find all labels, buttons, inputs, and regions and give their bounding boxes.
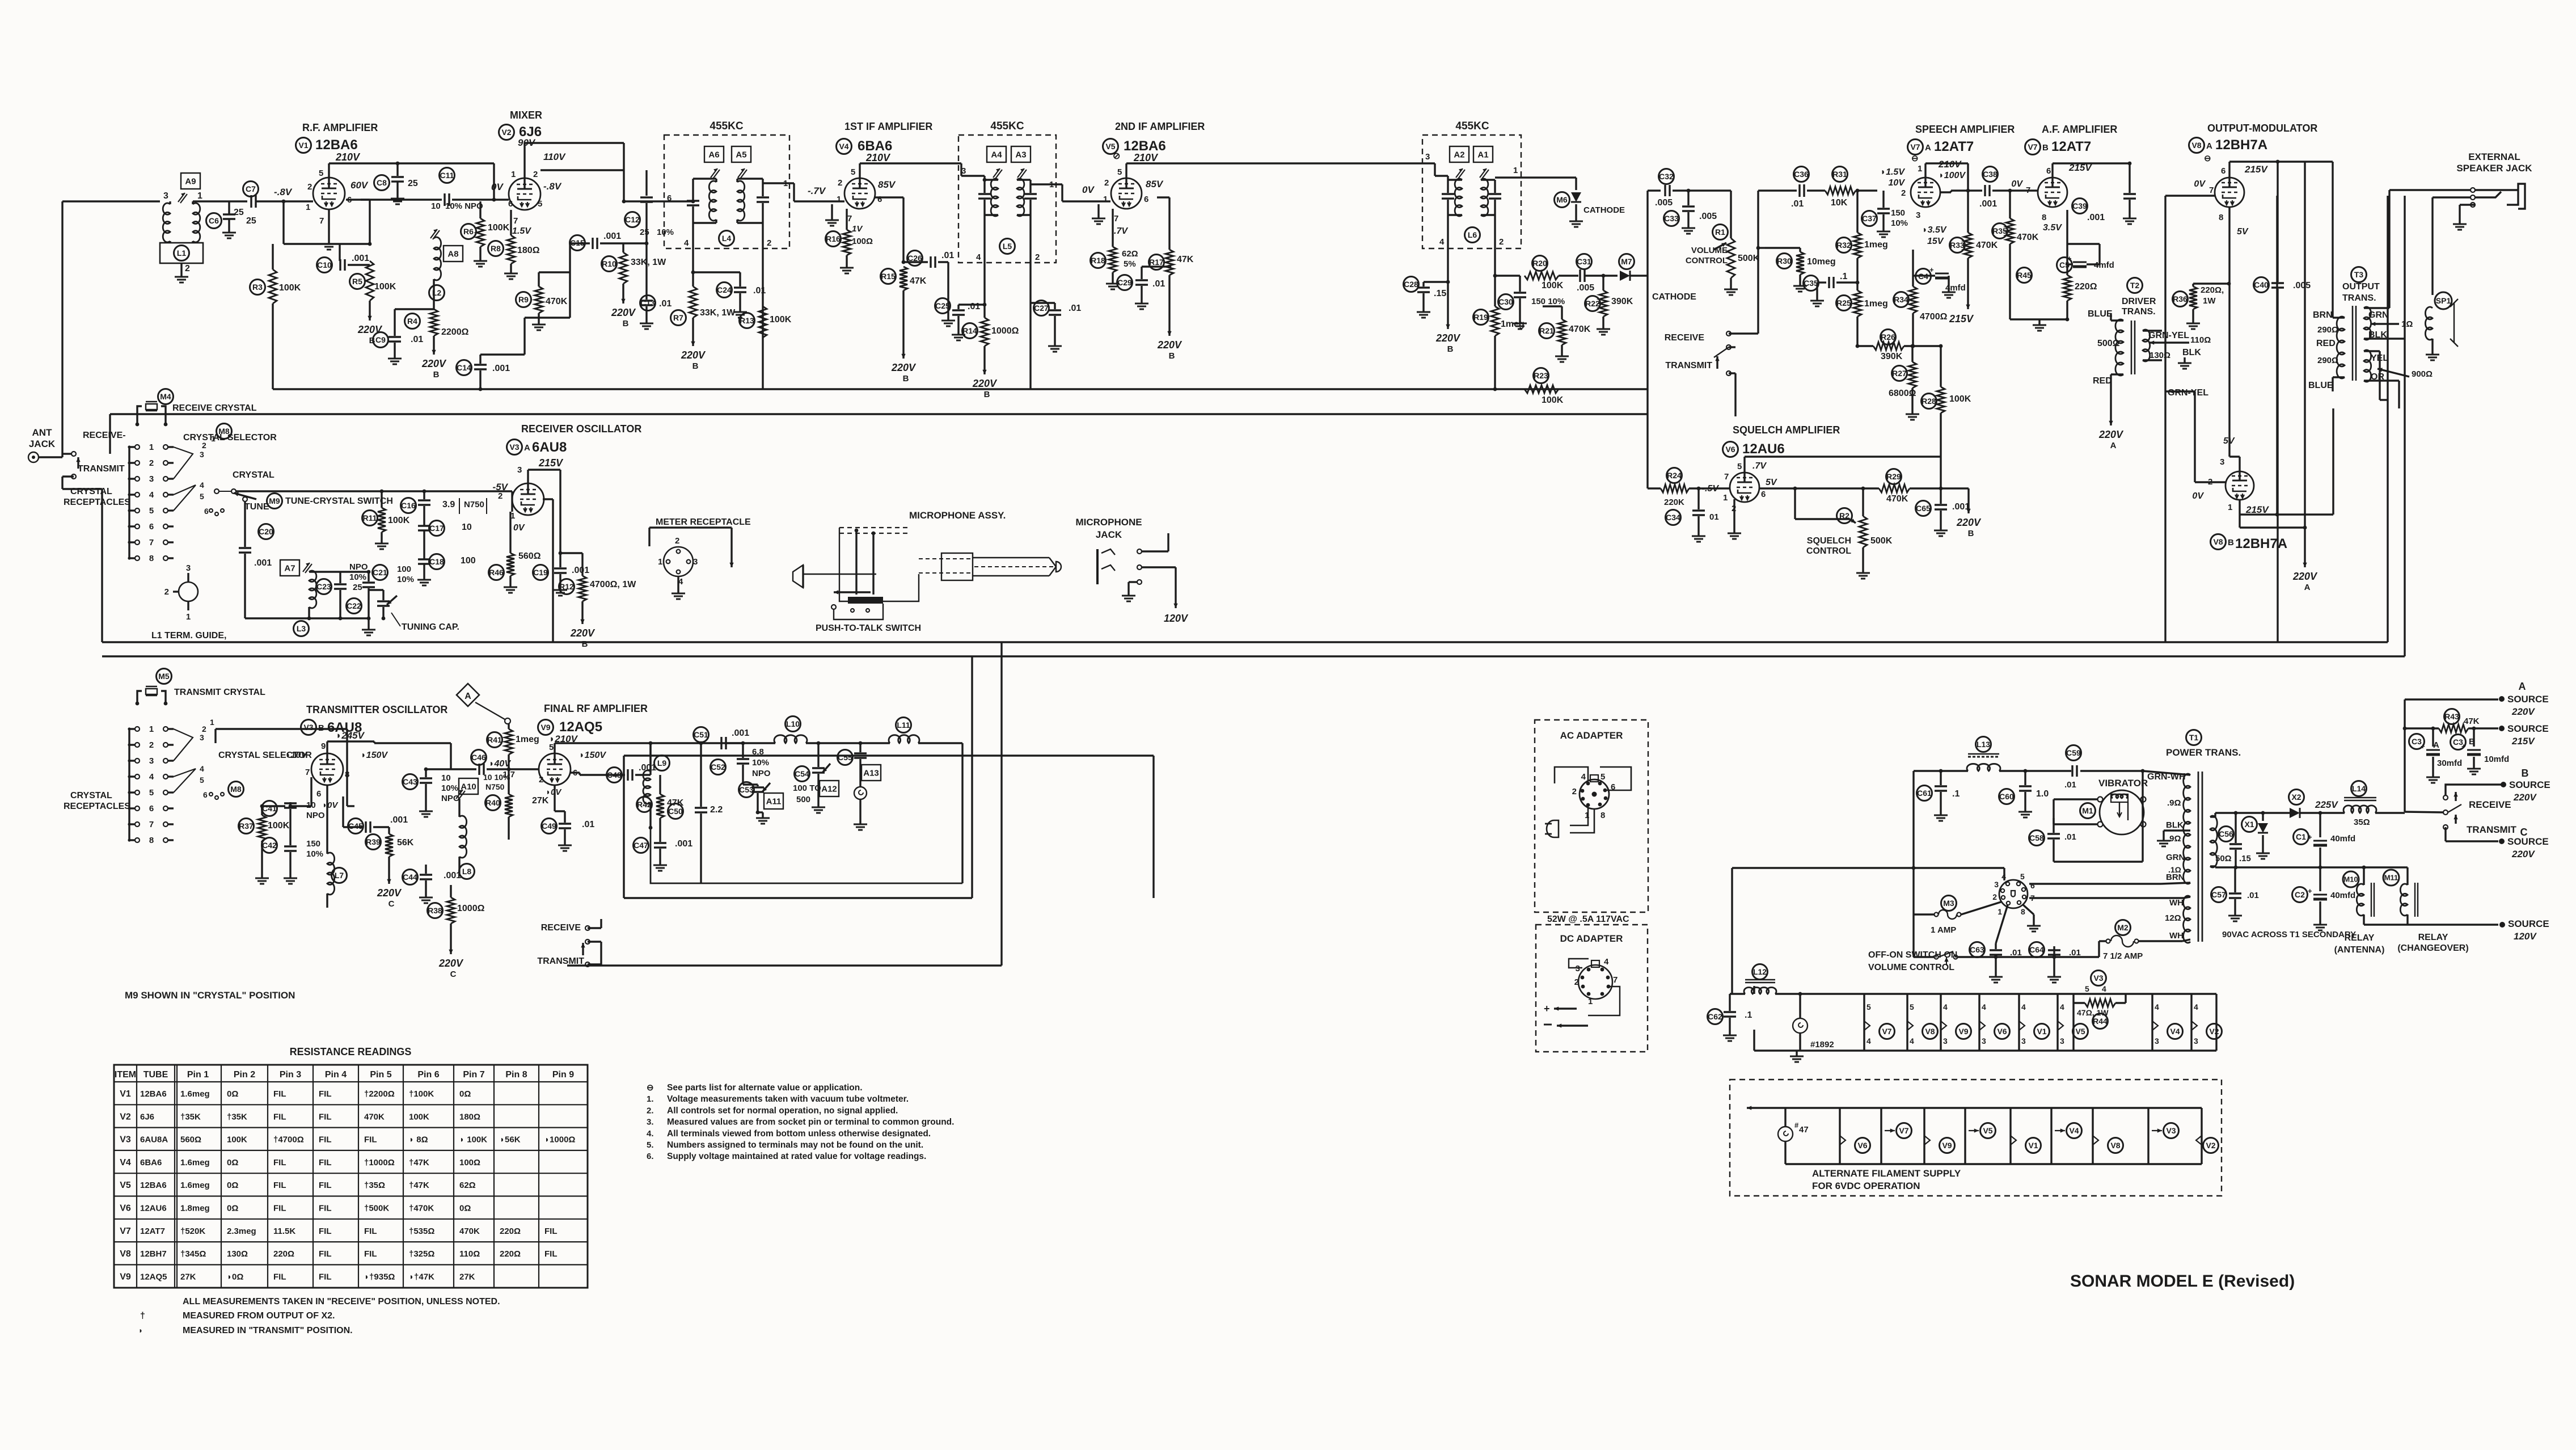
pin 6 V2 xyxy=(508,199,513,209)
receive-transmit source switch xyxy=(2443,785,2511,829)
svg-text:220Ω,: 220Ω, xyxy=(2201,285,2224,295)
svg-text:V3: V3 xyxy=(509,442,519,452)
label BLUE T3 xyxy=(2308,381,2333,390)
svg-text:.005: .005 xyxy=(1699,212,1717,221)
svg-text:A: A xyxy=(2519,681,2526,692)
svg-text:150 10%: 150 10% xyxy=(1531,297,1565,306)
svg-text:C44: C44 xyxy=(403,872,417,882)
label OFF-ON SWITCH xyxy=(1868,950,1957,972)
inductor L10 xyxy=(774,716,807,744)
label CRYSTAL SELECTOR lower xyxy=(218,751,312,760)
svg-text:130Ω: 130Ω xyxy=(227,1249,248,1259)
svg-text:12AQ5: 12AQ5 xyxy=(140,1272,167,1282)
svg-text:100: 100 xyxy=(461,556,476,566)
ground under C33 xyxy=(1682,222,1695,234)
svg-text:◗3.5V: ◗3.5V xyxy=(1922,225,1947,235)
voltage 210V V9 xyxy=(549,734,578,744)
svg-text:†470K: †470K xyxy=(409,1204,434,1213)
vibrator M1 designator xyxy=(2080,803,2096,819)
crystal selector M8 lower xyxy=(229,782,244,797)
svg-text:TUNE-CRYSTAL SWITCH: TUNE-CRYSTAL SWITCH xyxy=(285,496,393,506)
svg-text:SPEAKER JACK: SPEAKER JACK xyxy=(2456,163,2532,174)
wire main bus 730 xyxy=(110,414,1648,454)
label EXTERNAL SPEAKER JACK xyxy=(2456,151,2532,174)
svg-text:RECEPTACLES: RECEPTACLES xyxy=(64,802,130,811)
ground under C25 xyxy=(952,329,965,340)
ground under R30 xyxy=(1793,280,1807,292)
svg-text:FIL: FIL xyxy=(273,1112,286,1122)
inductor L3 label xyxy=(294,621,309,637)
pin 1 IF3 xyxy=(1513,166,1518,175)
IF1 secondary coil xyxy=(737,179,745,223)
svg-text:10%: 10% xyxy=(1891,218,1908,228)
svg-text:CATHODE: CATHODE xyxy=(1652,292,1696,302)
svg-text:A: A xyxy=(1925,143,1931,153)
svg-text:7: 7 xyxy=(1114,214,1118,224)
resistor R24 xyxy=(1661,468,1730,508)
wire T3 BLK riser xyxy=(2404,196,2405,339)
alt filament V5 xyxy=(1965,1108,1996,1164)
label RED T2 xyxy=(2093,376,2112,386)
svg-text:C30: C30 xyxy=(1498,297,1513,306)
capacitor C11 xyxy=(361,168,494,212)
ground under R18 xyxy=(1106,278,1120,289)
tube V8B 12BH7A xyxy=(2226,471,2254,500)
svg-text:100K: 100K xyxy=(770,315,792,324)
svg-text:3: 3 xyxy=(186,563,191,573)
capacitor C2 xyxy=(2292,867,2356,919)
svg-text:V7: V7 xyxy=(1910,142,1920,151)
voltage .7V V5 xyxy=(1114,226,1128,236)
svg-text:V1: V1 xyxy=(120,1089,131,1099)
voltage 0V V3A xyxy=(513,523,525,533)
svg-text:V8: V8 xyxy=(2110,1141,2120,1150)
svg-text:2: 2 xyxy=(838,178,842,188)
capacitor C33 xyxy=(1664,189,1717,226)
speaker SP1 xyxy=(2425,292,2458,349)
svg-text:TRANS.: TRANS. xyxy=(2342,293,2376,303)
svg-text:8: 8 xyxy=(149,836,154,845)
svg-text:VOLUME CONTROL: VOLUME CONTROL xyxy=(1868,963,1954,972)
svg-text:RED: RED xyxy=(2093,376,2112,386)
svg-text:10%: 10% xyxy=(349,572,366,582)
svg-text:1.6meg: 1.6meg xyxy=(180,1181,210,1190)
fuse M2 xyxy=(2103,920,2143,962)
svg-text:RECEIVE CRYSTAL: RECEIVE CRYSTAL xyxy=(172,403,257,413)
voltage 110V xyxy=(543,151,566,162)
svg-text:V1: V1 xyxy=(298,141,308,150)
capacitor C39 xyxy=(2072,163,2136,222)
svg-text:CONTROL: CONTROL xyxy=(1806,546,1851,556)
wire V4 out xyxy=(875,197,903,244)
svg-text:A5: A5 xyxy=(736,150,746,159)
svg-text:CRYSTAL: CRYSTAL xyxy=(70,487,112,496)
svg-text:L14: L14 xyxy=(2352,784,2366,793)
svg-text:Pin 9: Pin 9 xyxy=(552,1070,574,1080)
svg-text:V2: V2 xyxy=(501,128,511,137)
svg-text:.1: .1 xyxy=(1745,1010,1752,1020)
svg-text:0Ω: 0Ω xyxy=(227,1089,238,1099)
svg-text:1.0: 1.0 xyxy=(2036,789,2049,799)
capacitor C20 xyxy=(239,524,274,575)
svg-text:11.5K: 11.5K xyxy=(273,1226,295,1236)
junction C14 bus xyxy=(479,387,483,391)
svg-text:5: 5 xyxy=(319,168,323,178)
svg-text:⊖: ⊖ xyxy=(2204,154,2211,163)
ground T2 BLK xyxy=(2178,357,2191,369)
svg-text:2: 2 xyxy=(1035,252,1040,262)
svg-text:◗10V: ◗10V xyxy=(285,751,307,760)
svg-text:Pin 7: Pin 7 xyxy=(463,1070,484,1080)
capacitor C29 xyxy=(1117,267,1165,298)
ground under C29 xyxy=(1135,298,1148,309)
label 1ohm T1 xyxy=(2168,865,2181,874)
svg-text:220V: 220V xyxy=(421,358,447,369)
wire bus 1679 xyxy=(567,642,1002,966)
label RESISTANCE READINGS xyxy=(290,1046,412,1057)
inductor L12 xyxy=(1730,964,2216,994)
svg-text:†520K: †520K xyxy=(180,1226,205,1236)
svg-text:RED: RED xyxy=(2316,339,2336,348)
wire V3B plate up xyxy=(326,741,328,753)
resistor R39 xyxy=(366,827,414,865)
resistor R25 xyxy=(1836,271,1888,346)
svg-text:R37: R37 xyxy=(239,821,254,831)
tube V9 12AQ5 xyxy=(539,753,571,785)
capacitor C64 xyxy=(2029,942,2081,972)
svg-text:C40: C40 xyxy=(2254,280,2269,289)
receive-transmit antenna switch xyxy=(62,452,102,489)
ground under C53 xyxy=(756,812,770,824)
tube V3A designator xyxy=(507,440,567,456)
svg-text:C27: C27 xyxy=(1034,304,1049,313)
svg-text:R27: R27 xyxy=(1892,369,1907,378)
svg-text:MIXER: MIXER xyxy=(510,109,542,121)
transformer T3 designator xyxy=(2351,267,2367,283)
svg-text:WH: WH xyxy=(2169,931,2184,941)
svg-text:RECEIVE-: RECEIVE- xyxy=(83,431,126,440)
svg-text:R45: R45 xyxy=(2017,271,2032,280)
svg-text:2: 2 xyxy=(1992,892,1997,901)
capacitor C37 xyxy=(1862,191,1908,228)
capacitor C14 xyxy=(457,272,571,389)
capacitor C5 xyxy=(2057,244,2114,273)
svg-text:100Ω: 100Ω xyxy=(459,1158,480,1167)
svg-text:0Ω: 0Ω xyxy=(459,1204,471,1213)
svg-text:BLK: BLK xyxy=(2166,820,2184,830)
svg-text:R11: R11 xyxy=(363,513,377,522)
svg-text:8: 8 xyxy=(1601,811,1605,820)
label 900ohm T3 xyxy=(2377,368,2433,379)
arrow 220V C below R39 xyxy=(377,865,402,909)
ground under C47 xyxy=(653,859,667,871)
wire IF2 pin2 down xyxy=(1029,215,1031,303)
svg-text:5: 5 xyxy=(2085,984,2089,993)
ground under SP1 xyxy=(2426,349,2439,360)
svg-text:M11: M11 xyxy=(2384,874,2398,882)
tube V4 designator xyxy=(837,138,893,154)
pin 2 V1 xyxy=(307,182,312,192)
svg-text:25: 25 xyxy=(640,227,649,237)
svg-text:FIL: FIL xyxy=(319,1158,332,1167)
svg-text:R7: R7 xyxy=(673,313,683,322)
svg-text:†: † xyxy=(140,1311,145,1321)
pin 7 V4 xyxy=(847,214,852,224)
svg-text:3: 3 xyxy=(163,191,168,201)
label GRN-YEL T2 xyxy=(2148,331,2211,345)
svg-text:2: 2 xyxy=(675,536,679,546)
svg-text:†35Ω: †35Ω xyxy=(364,1181,385,1190)
svg-text:.1: .1 xyxy=(1840,272,1847,281)
ground under C63 xyxy=(1989,971,2003,983)
svg-text:†500K: †500K xyxy=(364,1204,389,1213)
arrow 220V B below IF3 pin4 xyxy=(1435,282,1461,354)
svg-text:215V: 215V xyxy=(1949,313,1974,324)
svg-text:L9: L9 xyxy=(657,758,667,768)
pin 1 V5 xyxy=(1103,195,1108,204)
svg-text:FIL: FIL xyxy=(273,1204,286,1213)
svg-text:1.6meg: 1.6meg xyxy=(180,1158,210,1167)
svg-text:C34: C34 xyxy=(1666,513,1680,522)
svg-text:R21: R21 xyxy=(1539,326,1554,335)
pin 5 V4 xyxy=(851,167,855,177)
svg-text:N750: N750 xyxy=(464,500,484,509)
AC adapter socket xyxy=(1555,767,1631,833)
pin 1-7 V9 xyxy=(502,770,515,779)
terminal SOURCE 215V xyxy=(2499,723,2549,747)
inductor L13 xyxy=(1914,737,2071,773)
svg-text:DRIVER: DRIVER xyxy=(2122,297,2156,306)
capacitor C13b wire xyxy=(692,272,694,286)
capacitor C48 xyxy=(570,743,656,783)
arrow 220V B right of C65 xyxy=(1941,488,1982,538)
filament R44 V3 xyxy=(2074,971,2126,1051)
svg-text:2: 2 xyxy=(149,740,154,750)
tube V4 6BA6 xyxy=(844,178,875,209)
wire mid bus 1132 xyxy=(102,641,2388,643)
svg-text:B: B xyxy=(1968,529,1974,538)
svg-text:.1: .1 xyxy=(1952,789,1960,799)
svg-text:3: 3 xyxy=(149,474,154,484)
svg-text:C47: C47 xyxy=(634,841,648,850)
svg-text:BRN: BRN xyxy=(2166,872,2185,882)
svg-text:V4: V4 xyxy=(2069,1126,2079,1135)
svg-text:2: 2 xyxy=(149,458,154,468)
pin 2 V5 xyxy=(1104,178,1109,188)
capacitor C50 xyxy=(668,743,723,883)
wire V3B grid xyxy=(289,777,311,808)
svg-text:M9 SHOWN IN "CRYSTAL" POSITIO: M9 SHOWN IN "CRYSTAL" POSITION xyxy=(125,990,295,1001)
svg-text:◗245V: ◗245V xyxy=(336,730,365,741)
transmitter output box xyxy=(624,656,1154,898)
svg-text:.001: .001 xyxy=(492,364,510,373)
svg-text:L3: L3 xyxy=(297,624,306,633)
svg-text:VIBRATOR: VIBRATOR xyxy=(2098,778,2148,789)
svg-text:2.: 2. xyxy=(647,1106,654,1115)
svg-text:0V: 0V xyxy=(1082,184,1095,195)
svg-text:1: 1 xyxy=(1918,164,1922,174)
trimmer A4 xyxy=(987,146,1006,179)
svg-text:12BA6: 12BA6 xyxy=(140,1181,167,1190)
svg-text:†35K: †35K xyxy=(227,1112,247,1122)
alt filament V6 xyxy=(1840,1108,1870,1164)
resistor R45 xyxy=(2017,264,2097,321)
capacitor C24 xyxy=(691,271,766,306)
svg-text:5: 5 xyxy=(149,788,154,798)
svg-text:12Ω: 12Ω xyxy=(2165,913,2181,923)
svg-text:7: 7 xyxy=(2026,186,2030,195)
svg-text:560Ω: 560Ω xyxy=(518,551,541,561)
pin 9 V3B xyxy=(321,741,326,751)
svg-text:12AT7: 12AT7 xyxy=(2051,139,2091,154)
wire V1 plate to 210V rail xyxy=(329,163,494,178)
svg-text:6J6: 6J6 xyxy=(140,1112,154,1122)
crystal selector M8 upper xyxy=(217,424,232,439)
svg-text:5: 5 xyxy=(200,775,204,785)
svg-text:1000Ω: 1000Ω xyxy=(991,326,1019,336)
tube V5 designator xyxy=(1103,138,1166,154)
svg-text:+: + xyxy=(2461,742,2466,751)
svg-text:L1 TERM. GUIDE,: L1 TERM. GUIDE, xyxy=(151,631,226,640)
lower crystal receptacles xyxy=(128,724,174,845)
capacitor C28 xyxy=(1404,277,1450,307)
resistor R6 xyxy=(461,201,510,255)
voltage 245V V3B xyxy=(336,730,365,741)
antenna jack xyxy=(28,452,62,462)
svg-text:7: 7 xyxy=(847,214,852,224)
svg-text:47K: 47K xyxy=(2464,716,2480,726)
label BRN T3 xyxy=(2313,310,2333,320)
label 12ohm T1 xyxy=(2165,913,2181,923)
voltage 150V V9 xyxy=(579,751,606,760)
resistor R10 xyxy=(602,242,667,284)
svg-text:500K: 500K xyxy=(1738,254,1760,263)
power transformer T1 xyxy=(2184,772,2218,943)
svg-text:◗ 100K: ◗ 100K xyxy=(459,1135,487,1145)
pin 1 IF1 xyxy=(783,179,788,188)
svg-text:500K: 500K xyxy=(1870,536,1893,546)
svg-text:OUTPUT: OUTPUT xyxy=(2342,282,2380,292)
svg-text:C23: C23 xyxy=(316,582,331,591)
svg-text:5V: 5V xyxy=(2237,227,2249,237)
svg-text:B: B xyxy=(2228,538,2234,547)
trimmer A11 xyxy=(764,793,783,809)
capacitor C49 xyxy=(542,785,595,840)
svg-text:#1892: #1892 xyxy=(1810,1040,1834,1049)
svg-text:.005: .005 xyxy=(1655,198,1673,208)
svg-text:L11: L11 xyxy=(897,720,910,730)
capacitor C4 xyxy=(1913,250,1966,293)
label R.F. AMPLIFIER xyxy=(302,122,378,133)
lamp in tank xyxy=(854,787,867,819)
svg-text:FIL: FIL xyxy=(273,1272,286,1282)
ground under C13 xyxy=(640,318,653,329)
inductor L5 label xyxy=(1000,239,1015,254)
svg-text:R46: R46 xyxy=(489,568,504,577)
svg-text:◗†935Ω: ◗†935Ω xyxy=(364,1272,395,1282)
svg-text:900Ω: 900Ω xyxy=(2412,369,2433,379)
filament V1 xyxy=(2019,994,2050,1051)
arrow 220V B below R14 xyxy=(972,355,998,399)
IF2 primary coil xyxy=(991,179,998,216)
svg-text:M1: M1 xyxy=(2082,806,2093,815)
svg-text:RECEIVER OSCILLATOR: RECEIVER OSCILLATOR xyxy=(521,423,641,435)
svg-text:2: 2 xyxy=(498,491,502,501)
svg-text:V5: V5 xyxy=(1983,1126,1992,1135)
svg-text:A: A xyxy=(524,443,530,453)
svg-text:†35K: †35K xyxy=(180,1112,201,1122)
svg-text:R32: R32 xyxy=(1836,241,1851,250)
svg-text:See parts list for alternate v: See parts list for alternate value or ap… xyxy=(667,1083,863,1093)
label 130ohm T2 xyxy=(2150,348,2201,360)
grounds under R37 C42 xyxy=(255,872,297,884)
capacitor C16 xyxy=(401,491,487,517)
svg-text:A12: A12 xyxy=(821,784,837,794)
svg-text:12AU6: 12AU6 xyxy=(1742,441,1785,457)
capacitor C42 xyxy=(262,838,324,873)
svg-text:L13: L13 xyxy=(1977,740,1990,749)
svg-text:V6: V6 xyxy=(1857,1141,1867,1150)
svg-text:6AU8A: 6AU8A xyxy=(140,1135,168,1145)
svg-text:180Ω: 180Ω xyxy=(517,246,540,255)
junction V1 screen node xyxy=(318,242,371,246)
ground under C24 xyxy=(733,306,747,318)
wire V8B grid xyxy=(2165,391,2226,482)
inductor L9 xyxy=(643,743,670,829)
svg-text:C6: C6 xyxy=(209,216,219,225)
capacitor C47 xyxy=(634,829,693,859)
diode X2 xyxy=(2215,790,2338,819)
tube V6 designator xyxy=(1723,441,1785,457)
svg-text:V4: V4 xyxy=(2170,1027,2180,1036)
svg-text:CRYSTAL SELECTOR: CRYSTAL SELECTOR xyxy=(183,433,277,442)
voltage 0V V7B xyxy=(2011,179,2023,189)
svg-text:.01: .01 xyxy=(659,299,672,309)
resistor R20 xyxy=(1525,256,1578,291)
voltage 215V V3A xyxy=(538,457,564,469)
ground under C57 xyxy=(2228,910,2242,921)
alternate lamp 47 xyxy=(1778,1108,1809,1164)
svg-text:A11: A11 xyxy=(766,796,782,806)
svg-text:C62: C62 xyxy=(1708,1012,1722,1021)
voltage .7V V4 xyxy=(808,186,826,196)
capacitor C41 xyxy=(262,800,325,845)
svg-text:R43: R43 xyxy=(2444,712,2459,721)
pin 1 V7A xyxy=(1918,164,1922,174)
svg-text:SOURCE: SOURCE xyxy=(2507,694,2549,705)
tube V7B designator xyxy=(2025,139,2092,155)
ground under C54 xyxy=(812,802,825,813)
capacitor C65 xyxy=(1916,488,1970,525)
svg-text:V8: V8 xyxy=(2213,537,2223,546)
relay M10 designator xyxy=(2343,871,2359,887)
svg-text:12BH7A: 12BH7A xyxy=(2235,536,2287,551)
svg-text:12BH7: 12BH7 xyxy=(140,1249,167,1259)
trimmer A7 with coil L3 xyxy=(245,560,369,618)
wire power left feed xyxy=(1732,866,2004,994)
resistor R7 xyxy=(671,286,736,326)
svg-text:C59: C59 xyxy=(2066,748,2081,757)
title SONAR MODEL E xyxy=(2070,1272,2295,1291)
resistor R27 xyxy=(1889,344,1916,408)
ground under C34 xyxy=(1692,530,1705,542)
svg-text:R13: R13 xyxy=(740,316,754,325)
wire V2 plate up xyxy=(525,143,624,178)
svg-text:ANT: ANT xyxy=(32,427,53,438)
svg-text:JACK: JACK xyxy=(29,439,56,449)
svg-text:220K: 220K xyxy=(1664,498,1684,507)
wire into IF3 pin3 xyxy=(1435,163,1448,180)
